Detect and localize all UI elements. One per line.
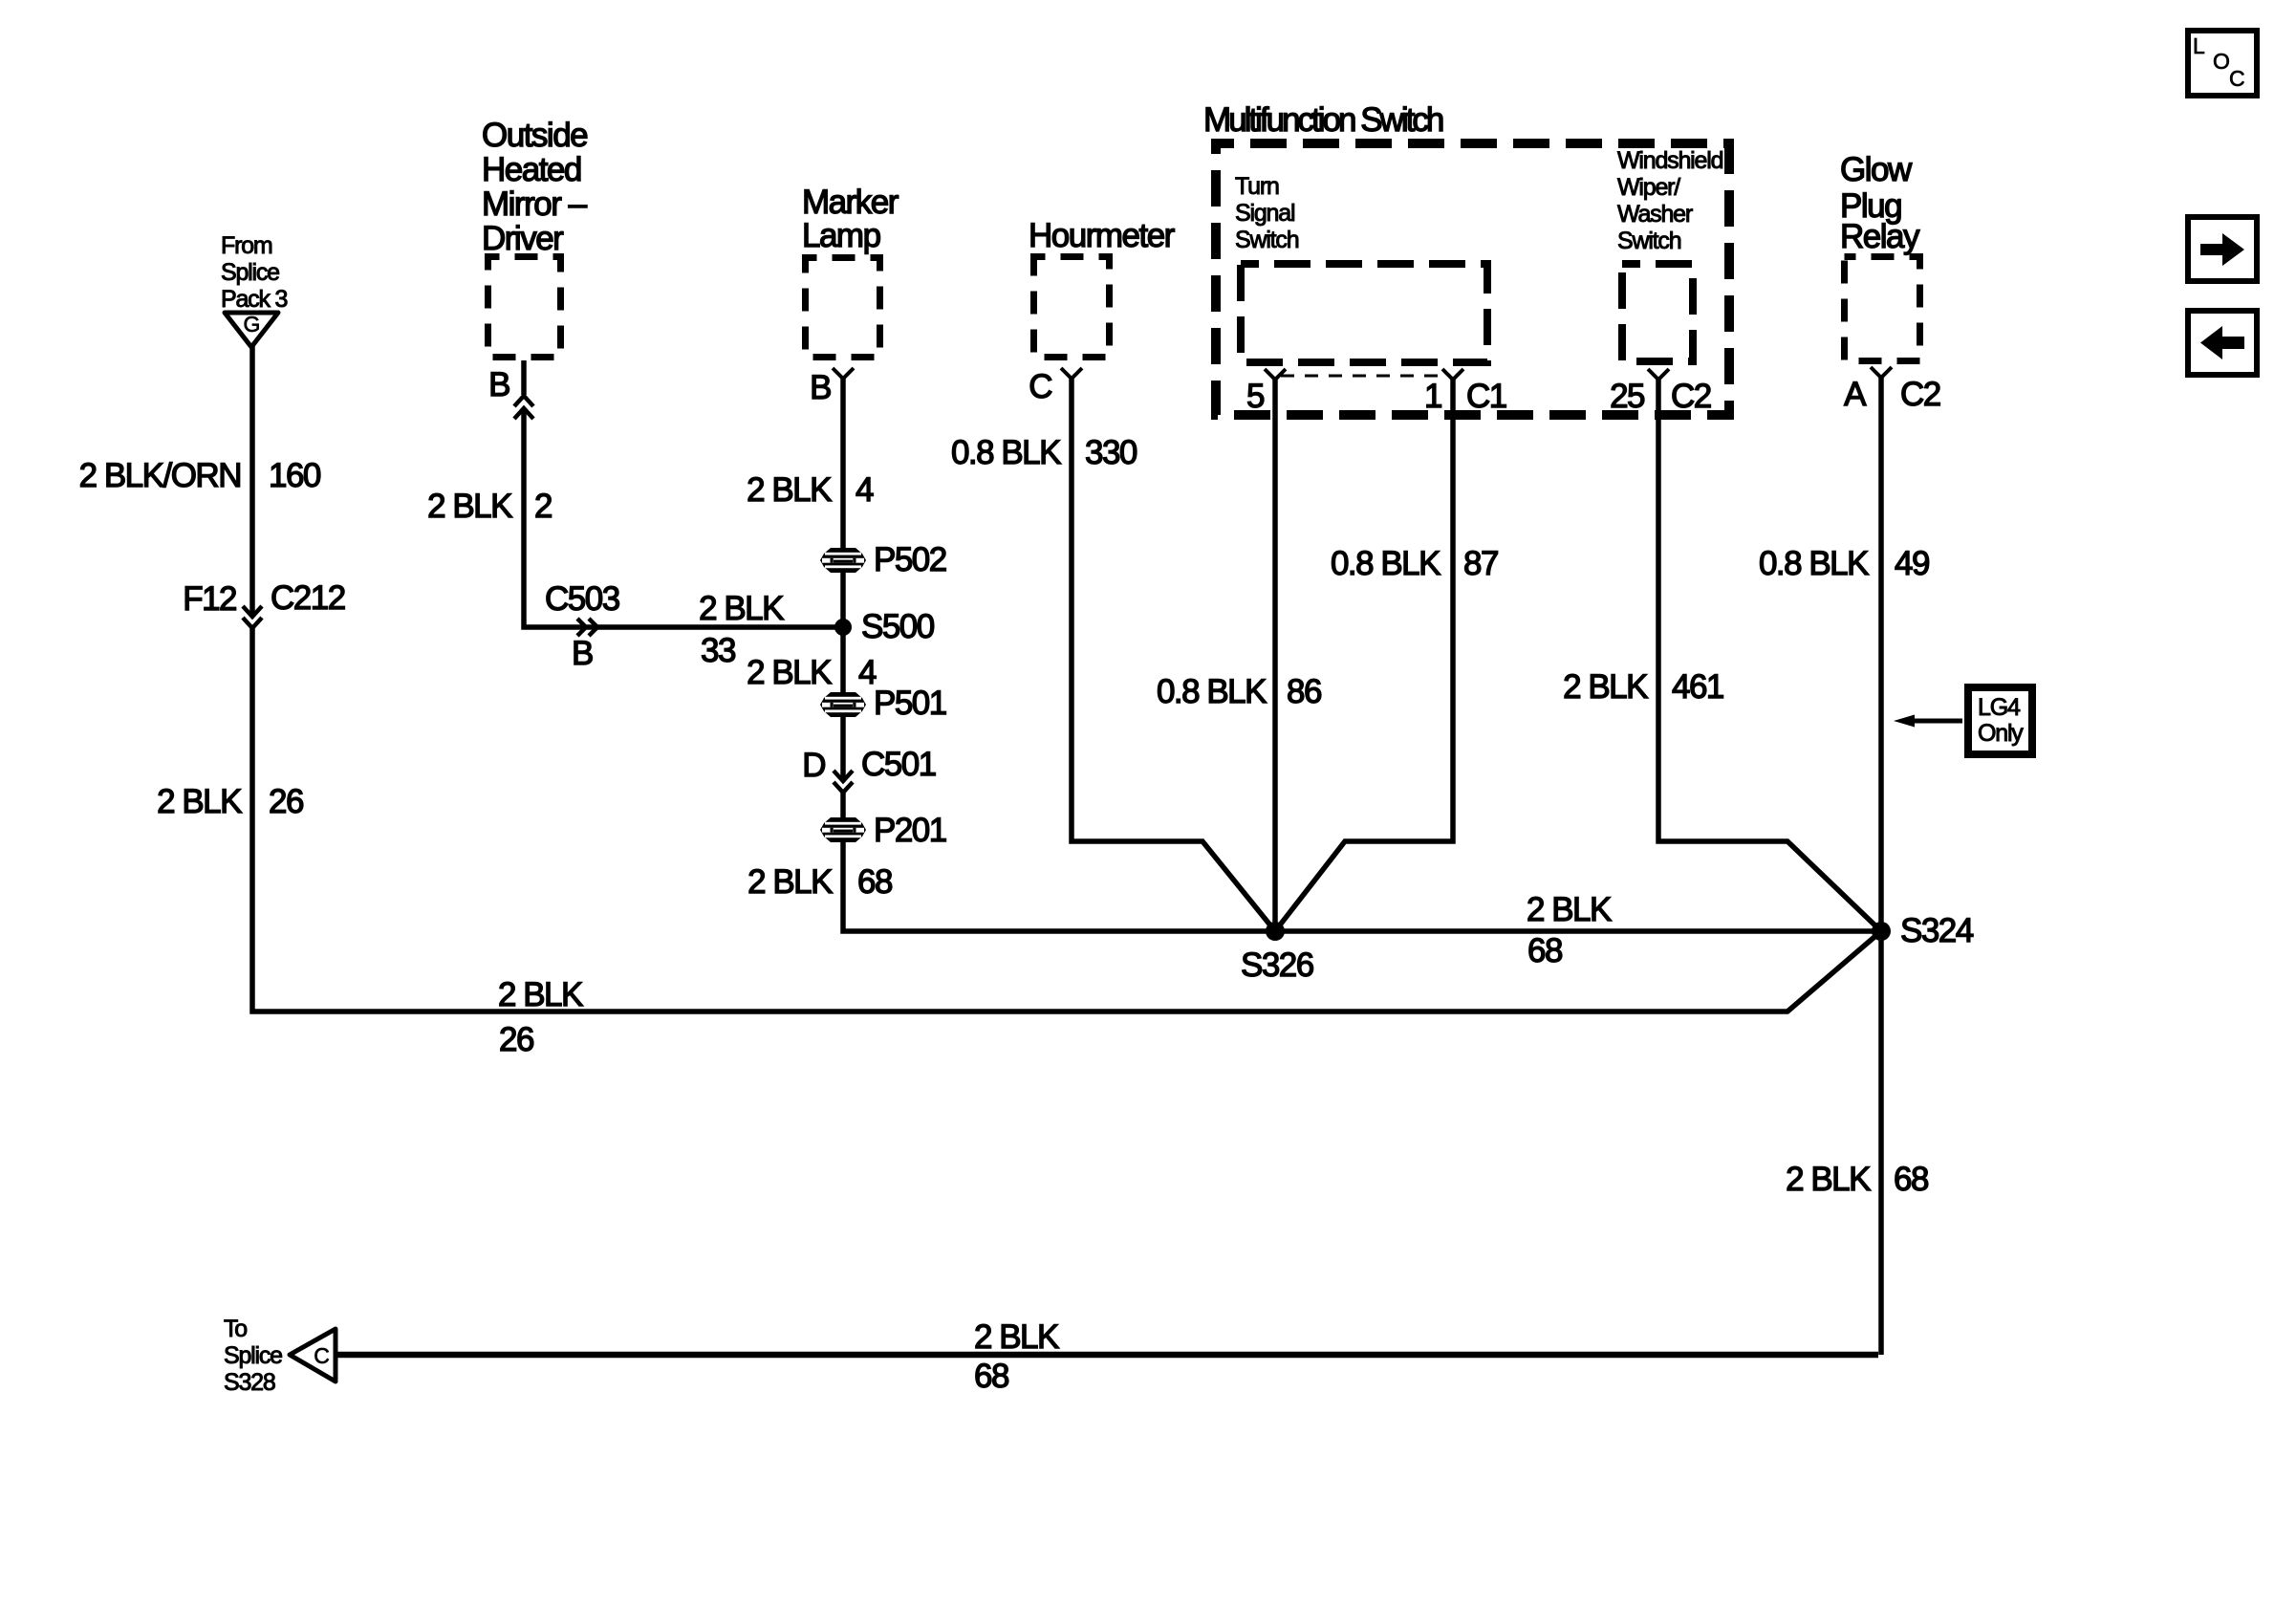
svg-text:2 BLK: 2 BLK bbox=[157, 783, 242, 820]
splice S500 bbox=[834, 608, 935, 645]
svg-text:Splice: Splice bbox=[224, 1342, 282, 1369]
connector Y at hourmeter pin C bbox=[1029, 368, 1082, 405]
component box: Glow Plug Relay bbox=[1840, 151, 1920, 361]
svg-text:Only: Only bbox=[1978, 720, 2024, 747]
inline connector C503 mirror side (double chevron up) bbox=[514, 396, 533, 419]
svg-text:S324: S324 bbox=[1900, 912, 1974, 949]
svg-text:68: 68 bbox=[1894, 1161, 1928, 1198]
svg-text:Splice: Splice bbox=[221, 259, 279, 286]
svg-text:0.8 BLK: 0.8 BLK bbox=[1759, 545, 1869, 582]
svg-text:87: 87 bbox=[1463, 545, 1498, 582]
wire: P501 down to connector C501 bbox=[840, 716, 846, 781]
svg-text:26: 26 bbox=[269, 783, 303, 820]
svg-text:A: A bbox=[1844, 376, 1867, 413]
svg-text:33: 33 bbox=[701, 632, 735, 669]
wire: mirror pin B stub bbox=[521, 360, 527, 395]
inline connector C212 pin F12 (down arrow + chevron) bbox=[183, 579, 345, 628]
svg-text:B: B bbox=[572, 635, 593, 672]
svg-text:2 BLK: 2 BLK bbox=[747, 863, 833, 901]
wire: 0.8 BLK 330 hourmeter down then to S326 bbox=[1072, 379, 1275, 931]
svg-text:2 BLK: 2 BLK bbox=[747, 654, 832, 691]
switch section box: Turn Signal Switch (inner) bbox=[1235, 173, 1487, 362]
inline connector C501 pin D (down arrow + chevron) bbox=[802, 746, 935, 793]
internal switch link (thin dashed line between pin 5 and pin 1) bbox=[1281, 375, 1447, 378]
svg-text:26: 26 bbox=[499, 1021, 533, 1058]
connector Y at wiper switch pin 25 C2 bbox=[1610, 369, 1711, 415]
inline connector C503 pin B (double chevron right) bbox=[545, 580, 619, 672]
svg-text:Glow: Glow bbox=[1840, 151, 1913, 188]
component box: Hourmeter bbox=[1029, 217, 1176, 358]
svg-text:Switch: Switch bbox=[1235, 227, 1299, 253]
svg-text:4: 4 bbox=[856, 471, 874, 509]
svg-text:P201: P201 bbox=[874, 812, 946, 849]
connector Y at turn signal switch pin 5 bbox=[1246, 369, 1286, 415]
svg-text:2 BLK/ORN: 2 BLK/ORN bbox=[79, 457, 241, 494]
svg-text:0.8 BLK: 0.8 BLK bbox=[1331, 545, 1440, 582]
svg-text:86: 86 bbox=[1287, 673, 1321, 710]
wire: 2 BLK 4 S500 down to P501 bbox=[840, 627, 846, 693]
switch section box: Windshield Wiper/Washer Switch (inner) bbox=[1617, 147, 1723, 361]
svg-text:2 BLK: 2 BLK bbox=[427, 488, 512, 525]
connector Y at glow plug relay pin A C2 bbox=[1844, 367, 1940, 413]
svg-text:C: C bbox=[314, 1343, 329, 1368]
svg-text:C: C bbox=[1029, 368, 1051, 405]
svg-text:Heated: Heated bbox=[482, 151, 581, 188]
splice pack triangle G (From Splice Pack 3) bbox=[221, 232, 288, 347]
wire: C501 to P201 bbox=[840, 793, 846, 818]
svg-text:25: 25 bbox=[1610, 378, 1644, 415]
svg-text:Mirror –: Mirror – bbox=[482, 185, 588, 223]
splice S326 bbox=[1241, 922, 1313, 984]
svg-text:D: D bbox=[802, 747, 825, 784]
svg-text:Signal: Signal bbox=[1235, 200, 1294, 227]
connector Y at turn signal switch pin 1 C1 bbox=[1424, 369, 1506, 415]
svg-text:0.8 BLK: 0.8 BLK bbox=[951, 434, 1061, 471]
svg-text:F12: F12 bbox=[183, 580, 236, 618]
svg-text:O: O bbox=[2213, 49, 2229, 74]
svg-text:2 BLK: 2 BLK bbox=[1563, 668, 1648, 706]
svg-text:0.8 BLK: 0.8 BLK bbox=[1157, 673, 1267, 710]
svg-text:C212: C212 bbox=[271, 579, 345, 617]
svg-text:From: From bbox=[221, 232, 272, 259]
legend box left arrow bbox=[2188, 311, 2257, 375]
svg-text:49: 49 bbox=[1895, 545, 1929, 582]
svg-text:To: To bbox=[224, 1316, 247, 1342]
svg-text:C2: C2 bbox=[1671, 378, 1711, 415]
wire: ground feed from splice pack G down (2 BLK/ORN 160) bbox=[249, 346, 255, 617]
svg-text:S328: S328 bbox=[224, 1369, 275, 1396]
legend box L O C bbox=[2188, 31, 2257, 96]
svg-text:P501: P501 bbox=[874, 685, 946, 722]
svg-text:Switch: Switch bbox=[1617, 228, 1681, 254]
svg-text:160: 160 bbox=[269, 457, 321, 494]
svg-text:Hourmeter: Hourmeter bbox=[1029, 217, 1176, 254]
svg-text:C2: C2 bbox=[1900, 376, 1940, 413]
svg-text:S326: S326 bbox=[1241, 946, 1313, 984]
svg-text:2 BLK: 2 BLK bbox=[699, 590, 784, 627]
grommet P201 bbox=[820, 812, 946, 849]
svg-text:2 BLK: 2 BLK bbox=[498, 976, 583, 1013]
svg-text:2 BLK: 2 BLK bbox=[1527, 891, 1612, 928]
svg-text:C1: C1 bbox=[1466, 378, 1506, 415]
svg-text:68: 68 bbox=[974, 1358, 1008, 1395]
splice triangle C (To Splice S328) bbox=[224, 1316, 336, 1396]
svg-text:2 BLK: 2 BLK bbox=[1786, 1161, 1871, 1198]
legend box right arrow bbox=[2188, 217, 2257, 281]
svg-text:P502: P502 bbox=[874, 541, 946, 578]
wire: 2 BLK 461 pin 25 down then to S324 bbox=[1658, 380, 1881, 931]
wire: 0.8 BLK 49 glow plug relay down through S324 to bottom rail bbox=[1878, 378, 1884, 1355]
svg-text:330: 330 bbox=[1085, 434, 1137, 471]
svg-text:461: 461 bbox=[1672, 668, 1723, 706]
svg-text:2 BLK: 2 BLK bbox=[747, 471, 832, 509]
svg-text:Turn: Turn bbox=[1235, 173, 1279, 200]
svg-text:Outside: Outside bbox=[482, 117, 587, 154]
svg-text:B: B bbox=[810, 369, 831, 406]
wire: 2 BLK 4 marker lamp down to P502 bbox=[840, 379, 846, 549]
wire: 0.8 BLK 86 pin 5 down to S326 bbox=[1272, 380, 1278, 931]
svg-text:5: 5 bbox=[1246, 378, 1264, 415]
svg-text:Windshield: Windshield bbox=[1617, 147, 1723, 174]
svg-text:Lamp: Lamp bbox=[802, 217, 880, 254]
connector Y at marker lamp pin B bbox=[810, 368, 854, 406]
svg-text:Driver: Driver bbox=[482, 220, 564, 257]
component box: Multifunction Switch (outer) bbox=[1203, 101, 1729, 415]
svg-text:B: B bbox=[488, 366, 509, 403]
svg-text:68: 68 bbox=[1527, 932, 1562, 969]
svg-text:L: L bbox=[2193, 33, 2205, 58]
svg-text:Marker: Marker bbox=[802, 184, 899, 221]
splice S324 bbox=[1872, 912, 1974, 949]
svg-text:Wiper/: Wiper/ bbox=[1617, 174, 1680, 201]
wire: 2 BLK 2 from mirror down, then right to S500 bbox=[524, 410, 843, 627]
svg-text:1: 1 bbox=[1424, 378, 1441, 415]
svg-text:C501: C501 bbox=[861, 746, 936, 783]
wire: 0.8 BLK 87 pin 1 down then to S326 bbox=[1275, 380, 1453, 931]
wire: P502 to S500 bbox=[840, 572, 846, 627]
svg-text:Pack 3: Pack 3 bbox=[221, 286, 288, 313]
grommet P502 bbox=[820, 541, 946, 578]
svg-text:Relay: Relay bbox=[1840, 218, 1920, 255]
svg-text:C: C bbox=[2229, 66, 2244, 91]
svg-text:2 BLK: 2 BLK bbox=[974, 1318, 1059, 1356]
svg-text:G: G bbox=[244, 312, 260, 337]
svg-text:C503: C503 bbox=[545, 580, 619, 618]
component box: Outside Heated Mirror - Driver bbox=[482, 117, 588, 358]
wire: 2 BLK 26 down the left side, then across to S324 bbox=[252, 628, 1881, 1012]
component box: Marker Lamp bbox=[802, 184, 899, 358]
svg-text:Washer: Washer bbox=[1617, 201, 1693, 228]
svg-text:68: 68 bbox=[857, 863, 892, 901]
svg-text:S500: S500 bbox=[861, 608, 935, 645]
wire: 2 BLK 68 from P201 down and right to S326/S324 bbox=[843, 841, 1881, 931]
svg-text:LG4: LG4 bbox=[1978, 694, 2021, 721]
note box LG4 Only with arrow bbox=[1894, 687, 2032, 754]
grommet P501 bbox=[820, 685, 946, 722]
svg-text:2: 2 bbox=[534, 488, 552, 525]
svg-text:Multifunction Switch: Multifunction Switch bbox=[1203, 101, 1443, 139]
